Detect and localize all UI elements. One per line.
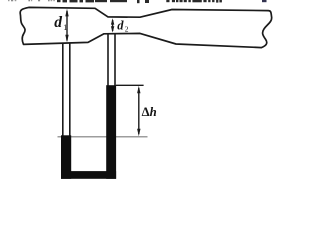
svg-text:d: d: [117, 18, 124, 32]
leader line at right mercury level: [116, 84, 144, 86]
right manometer tube wall (left): [107, 34, 109, 86]
delta-h dimension arrow: [137, 86, 140, 137]
left manometer tube wall (right): [69, 43, 71, 136]
d2 dimension arrow: [111, 18, 114, 32]
venturi pipe outline: [20, 7, 271, 47]
svg-text:d: d: [54, 14, 62, 31]
faint level reference line at left mercury level: [58, 136, 148, 138]
svg-text:2: 2: [125, 24, 129, 33]
right manometer tube wall (right): [114, 34, 116, 86]
svg-text:1: 1: [63, 23, 67, 32]
mercury column right arm: [106, 85, 116, 179]
d1 dimension arrow: [65, 9, 68, 43]
mercury column left arm: [61, 135, 71, 179]
cropped text remnants along top edge: [8, 0, 267, 3]
svg-text:Δh: Δh: [142, 105, 157, 119]
mercury U-bend bottom bar: [61, 171, 116, 179]
left manometer tube wall (left): [62, 43, 64, 136]
